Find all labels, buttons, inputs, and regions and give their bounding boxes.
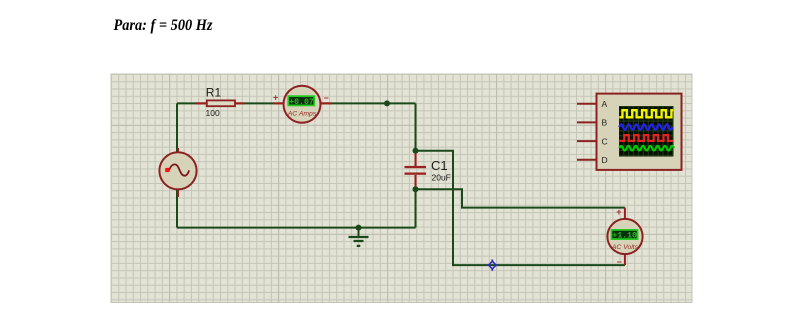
- svg-text:AC Amps: AC Amps: [287, 110, 317, 117]
- schematic grid background: [111, 74, 692, 303]
- source pins: [177, 148, 179, 197]
- ground bar 2: [354, 240, 364, 242]
- grid major vertical lines: [170, 74, 606, 303]
- scope trace A yellow square wave: [619, 110, 673, 117]
- capacitor top plate: [405, 166, 427, 168]
- source origin red dot: [165, 168, 169, 172]
- grid major horizontal lines: [111, 125, 692, 234]
- wire left vertical (to source top): [176, 103, 178, 152]
- scope trace B blue sine wave: [619, 124, 672, 129]
- svg-text:B: B: [602, 118, 608, 128]
- svg-text:−: −: [617, 257, 622, 267]
- oscilloscope U1: [577, 94, 682, 170]
- wire bottom return rail: [177, 227, 416, 229]
- svg-text:−: −: [324, 93, 329, 103]
- ground stem: [358, 228, 360, 237]
- wire source bottom vertical: [176, 190, 178, 228]
- resistor R1: [196, 85, 245, 118]
- voltmeter LCD display: [612, 230, 638, 239]
- svg-text:Para: f = 500 Hz: Para: f = 500 Hz: [113, 16, 213, 34]
- junction node capacitor bottom: [413, 186, 419, 192]
- resistor R1 pins: [196, 102, 245, 104]
- source sine symbol: [169, 164, 189, 175]
- svg-text:AC Volts: AC Volts: [611, 244, 639, 251]
- ammeter body circle: [284, 86, 321, 123]
- oscilloscope input pins A-D: [577, 104, 597, 160]
- scope trace C red square wave: [619, 135, 673, 141]
- svg-text:20uF: 20uF: [432, 172, 451, 182]
- wire capacitor top drop: [415, 103, 417, 151]
- junction node on top rail: [384, 100, 390, 106]
- svg-text:+1.10: +1.10: [612, 232, 637, 241]
- source body circle: [159, 152, 196, 189]
- junction node ground tap: [356, 225, 362, 231]
- wire cap top node to voltmeter minus: [416, 151, 625, 265]
- oscilloscope body: [597, 94, 682, 170]
- svg-text:R1: R1: [206, 85, 222, 99]
- wire cap bottom node to voltmeter plus: [416, 189, 625, 207]
- voltmeter body circle: [607, 219, 642, 254]
- junction node capacitor top: [413, 148, 419, 154]
- ground bar 1: [349, 236, 369, 238]
- ammeter LCD display: [288, 96, 314, 105]
- capacitor pins: [415, 153, 417, 186]
- node origin marker (blue diamond): [487, 260, 498, 271]
- ammeter pins: [273, 102, 332, 104]
- marker cross ticks: [487, 260, 498, 271]
- svg-text:D: D: [602, 155, 608, 165]
- svg-text:A: A: [602, 99, 608, 109]
- svg-text:C: C: [602, 136, 608, 146]
- wire top rail (source to capacitor branch): [177, 102, 416, 104]
- svg-text:C1: C1: [431, 158, 448, 173]
- marker diamond outline: [489, 261, 497, 269]
- ammeter AC Amps: [273, 86, 332, 123]
- svg-text:100: 100: [206, 108, 220, 118]
- svg-text:+0.07: +0.07: [289, 98, 314, 107]
- wire capacitor bottom to return rail: [415, 189, 417, 228]
- ground: [349, 228, 369, 246]
- AC source V1: [159, 148, 196, 197]
- ground bar 3: [357, 245, 361, 247]
- oscilloscope screen: [619, 106, 674, 157]
- voltmeter pins: [624, 208, 626, 266]
- resistor R1 body: [207, 100, 235, 106]
- scope trace D green sine wave: [619, 146, 674, 150]
- svg-text:+: +: [616, 207, 621, 217]
- svg-text:+: +: [273, 93, 278, 103]
- capacitor bottom plate: [405, 173, 427, 175]
- capacitor C1: [405, 153, 451, 186]
- voltmeter AC Volts: [607, 207, 642, 267]
